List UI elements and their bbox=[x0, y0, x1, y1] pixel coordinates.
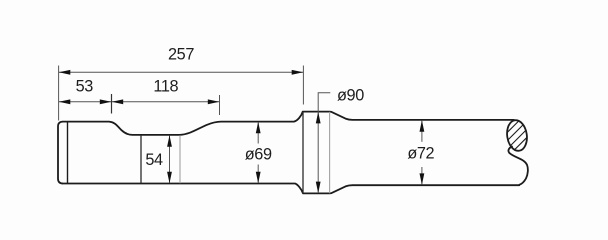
part outline: chisel body bottom profile bbox=[63, 184, 519, 194]
dimension ø69: lower dimension line bbox=[257, 165, 259, 184]
break: S-break curve to bottom edge bbox=[508, 147, 527, 185]
dimension ø69: upper dimension line bbox=[257, 122, 259, 144]
dimension ø72: top arrowhead bbox=[420, 120, 425, 132]
dimension ø90: bottom arrowhead bbox=[316, 182, 321, 194]
svg-text:ø69: ø69 bbox=[245, 146, 272, 164]
part outline: chisel body top profile bbox=[63, 112, 514, 135]
svg-text:ø90: ø90 bbox=[337, 86, 364, 104]
dimension 257: right arrowhead bbox=[292, 70, 304, 75]
dimension 257: dimension line bbox=[59, 71, 303, 73]
edge line: flange left junction bbox=[302, 112, 304, 194]
svg-text:ø72: ø72 bbox=[407, 145, 434, 163]
svg-text:257: 257 bbox=[168, 46, 194, 64]
edge line: flange right tangent (light) bbox=[329, 112, 331, 194]
edge line: narrow section left boundary bbox=[140, 135, 142, 183]
dimension ø72: upper dimension line bbox=[421, 120, 423, 142]
edge line: narrow section right tangent (light) bbox=[179, 135, 181, 183]
dimension 118: left arrowhead at tick bbox=[112, 99, 124, 104]
dimension 118: right arrowhead bbox=[208, 99, 220, 104]
edge line: cap end-face bbox=[67, 122, 69, 184]
dimension ø72: bottom arrowhead bbox=[420, 173, 425, 185]
dimension 54: top arrowhead bbox=[167, 135, 172, 147]
dimension 54: bottom arrowhead bbox=[167, 172, 172, 184]
dimension ø69: top arrowhead bbox=[256, 122, 261, 134]
dimension 53: left arrowhead bbox=[59, 99, 71, 104]
break: hatched revolved section ellipse bbox=[498, 104, 538, 165]
dimension 53: right arrowhead at tick bbox=[100, 99, 112, 104]
dimension 257: left arrowhead bbox=[59, 70, 71, 75]
dimension 53/118: right extension line bbox=[219, 95, 221, 115]
dimension 54: dimension line bbox=[169, 136, 171, 183]
dimension 53/118: dimension line bbox=[59, 101, 219, 103]
svg-text:118: 118 bbox=[153, 77, 178, 95]
dimension ø90: leader elbow bbox=[318, 93, 330, 193]
dimension ø90: top arrowhead bbox=[316, 112, 321, 124]
part outline: left cap end (rounded) bbox=[58, 122, 63, 184]
dimension ø72: lower dimension line bbox=[421, 167, 423, 185]
svg-text:54: 54 bbox=[145, 151, 163, 169]
dimension 257: extension line right bbox=[302, 66, 304, 105]
dimension 257: extension line left bbox=[58, 66, 60, 121]
dimension ø69: bottom arrowhead bbox=[256, 172, 261, 184]
svg-text:53: 53 bbox=[76, 77, 94, 95]
dimension 53/118: shared tick extension bbox=[111, 94, 113, 114]
